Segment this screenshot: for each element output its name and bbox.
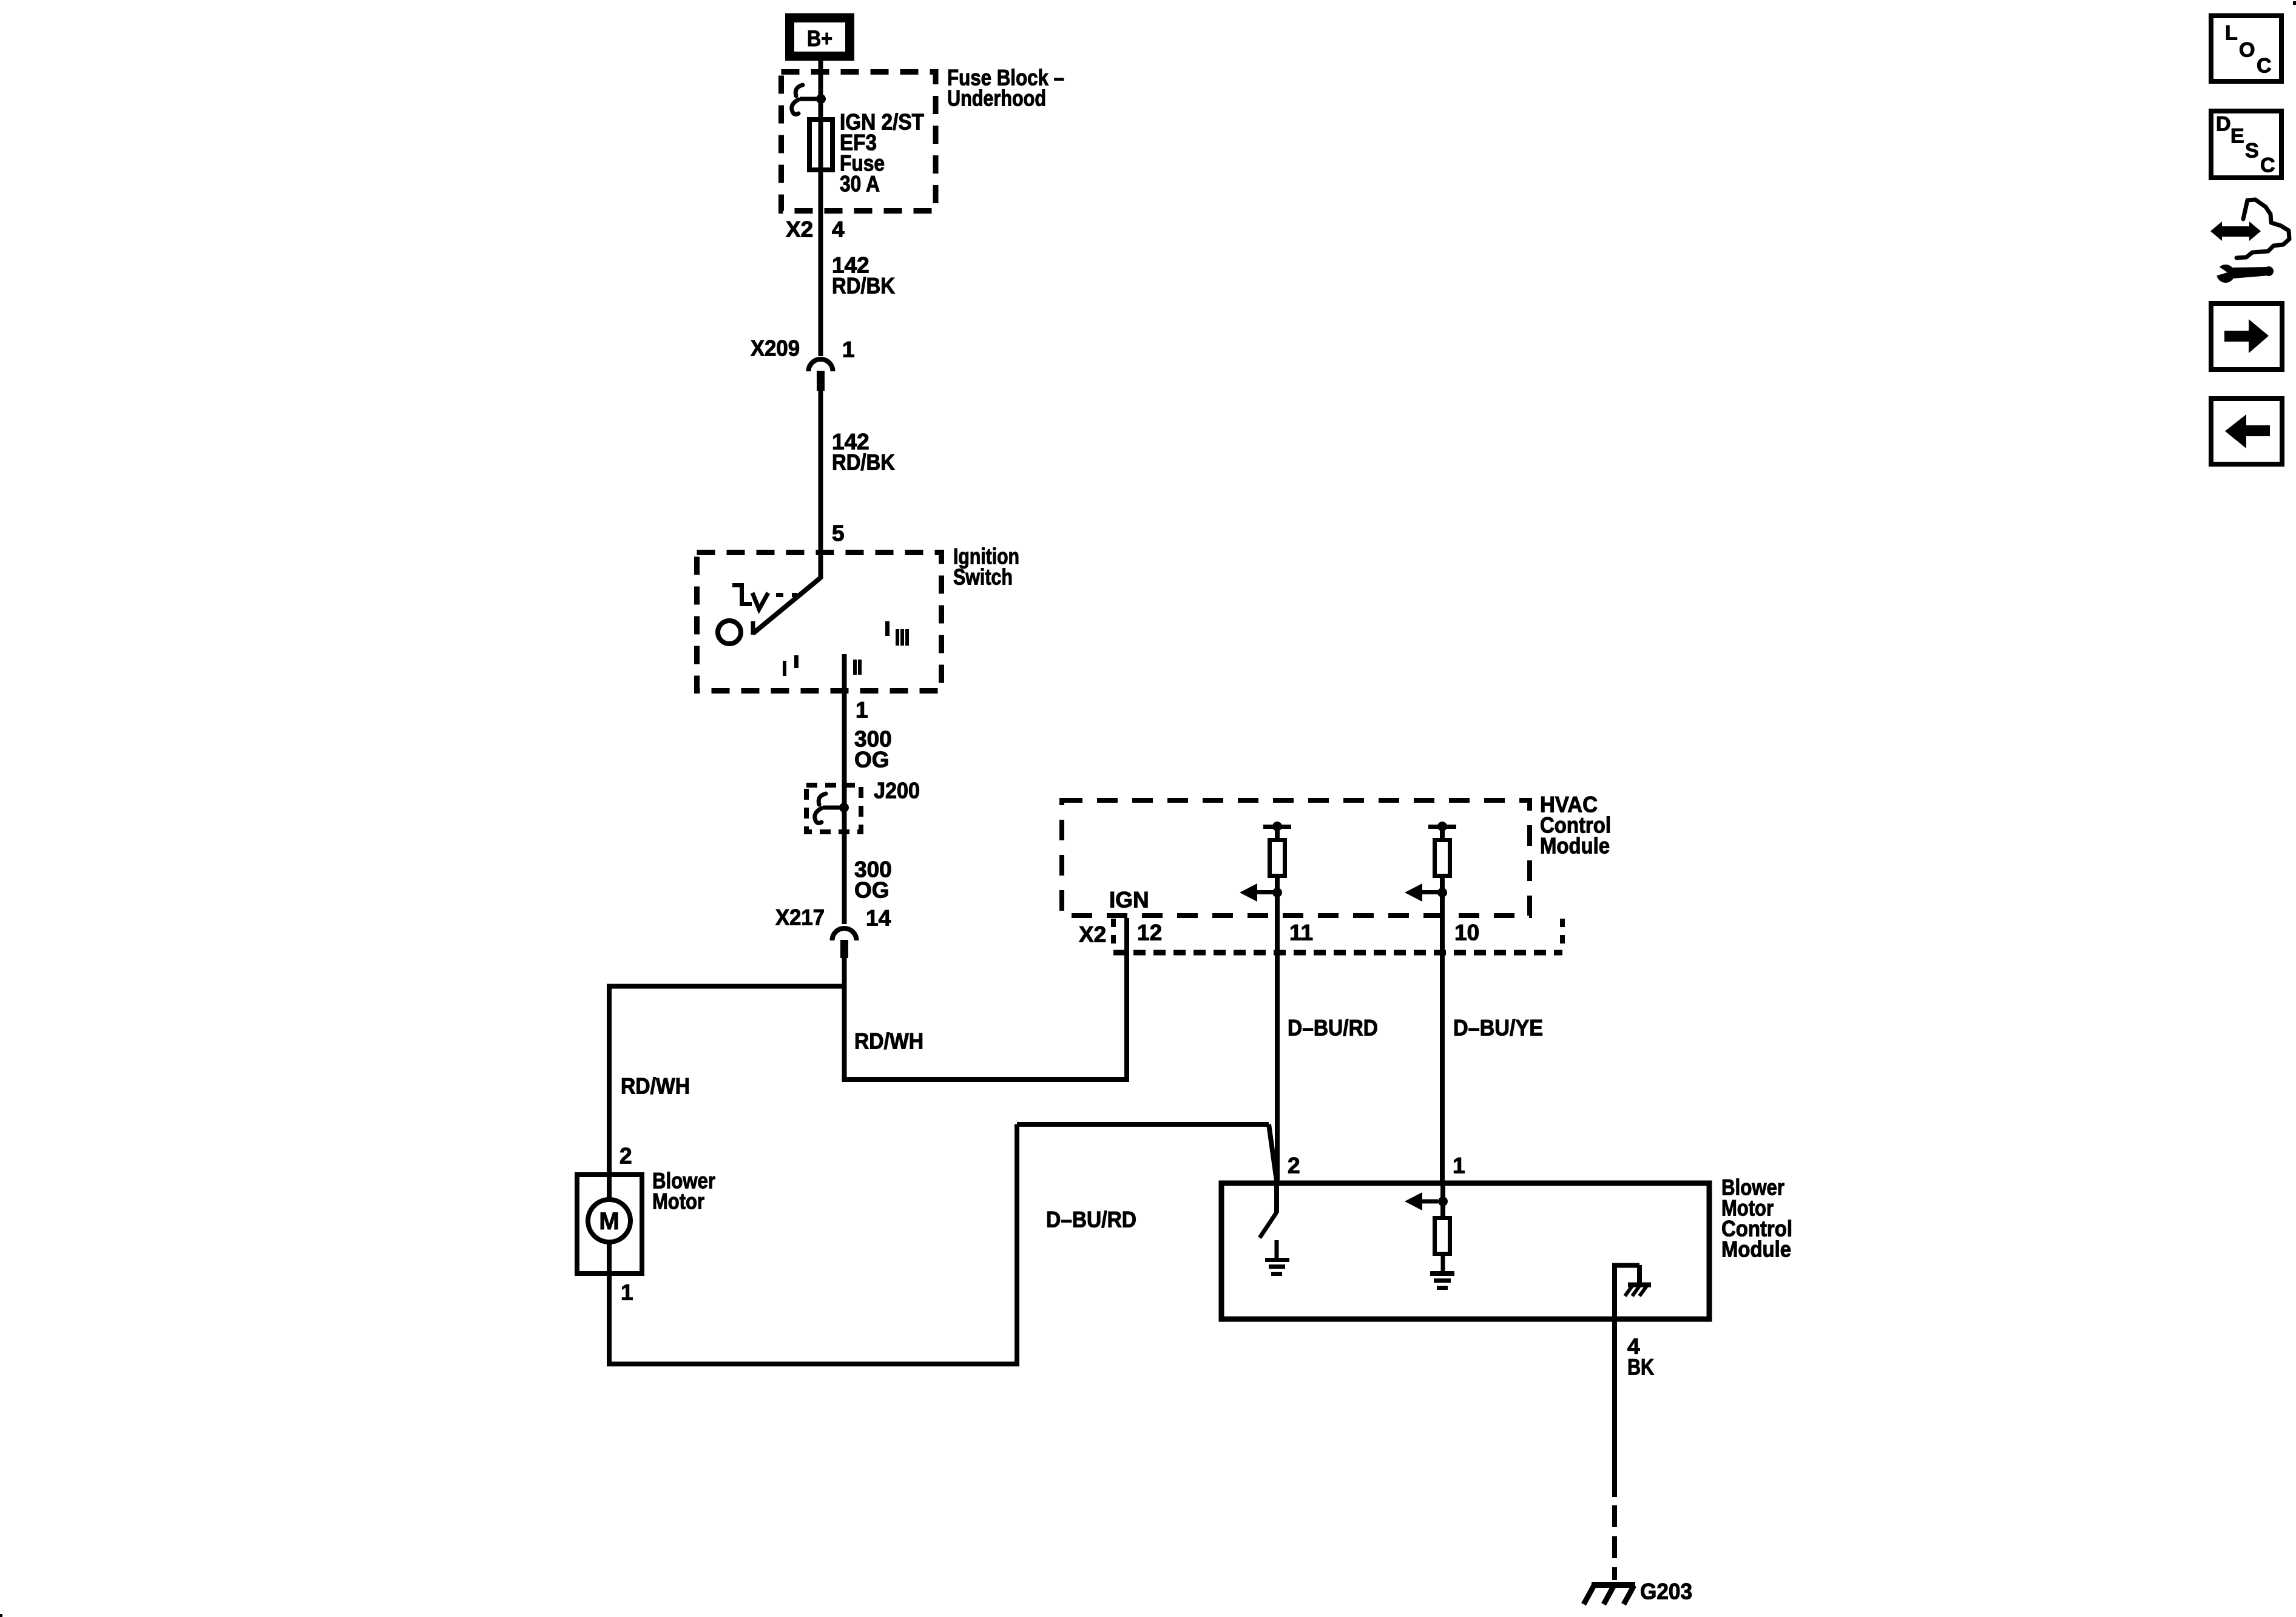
svg-text:12: 12 [1137, 920, 1162, 945]
svg-text:14: 14 [866, 906, 891, 931]
wire X217 down [842, 956, 847, 1082]
wire bottom run [607, 1362, 1019, 1366]
fuse IGN 2/ST EF3 30A [809, 120, 832, 170]
svg-text:BK: BK [1627, 1355, 1654, 1380]
sidebar DESC box [2211, 111, 2281, 178]
switch position III [885, 621, 890, 636]
svg-text:D–BU/YE: D–BU/YE [1453, 1016, 1543, 1041]
svg-text:OG: OG [854, 748, 890, 772]
arrow resistor 1 [1257, 890, 1273, 894]
key glyph [732, 583, 744, 587]
sidebar next arrow box [2211, 303, 2282, 370]
ground symbol pin 2 [1265, 1258, 1289, 1262]
blade pivot tick [751, 621, 755, 635]
svg-text:D–BU/RD: D–BU/RD [1288, 1016, 1378, 1041]
svg-text:J200: J200 [874, 778, 920, 803]
fuse block underhood dashed box [782, 72, 936, 211]
motor circle M [588, 1200, 630, 1242]
wire below motor [607, 1242, 612, 1366]
wire HVAC pin 12 drop [1124, 918, 1129, 1082]
svg-text:D–BU/RD: D–BU/RD [1046, 1207, 1136, 1232]
BMCM pin 4 internal chassis ground [1612, 1265, 1617, 1497]
page corner mark bottom left [0, 1614, 2, 1617]
svg-text:10: 10 [1454, 920, 1479, 945]
HVAC control module dashed box [1062, 800, 1530, 916]
svg-text:30 A: 30 A [840, 172, 880, 197]
svg-text:S: S [2245, 140, 2259, 163]
wire down to blower pin 2 [607, 987, 612, 1200]
svg-text:RD/BK: RD/BK [832, 450, 895, 475]
splice J200 dashed box [806, 785, 861, 832]
svg-text:Motor: Motor [652, 1189, 704, 1214]
svg-text:2: 2 [620, 1144, 632, 1169]
sidebar repair icon wrench [2217, 265, 2274, 283]
sidebar back arrow box [2211, 399, 2282, 464]
dot resistor 1 out [1272, 888, 1282, 897]
blower motor box [577, 1175, 642, 1274]
svg-text:X2: X2 [1079, 922, 1106, 947]
wire ignition II output [842, 654, 847, 924]
svg-text:2: 2 [1288, 1153, 1300, 1178]
wire HVAC pin 11 [1275, 878, 1280, 1183]
wire to BMCM pin 2 [1017, 1122, 1269, 1127]
HVAC resistor 1 [1263, 825, 1291, 829]
svg-text:Module: Module [1721, 1237, 1791, 1262]
sidebar repair icon harness outline [2237, 200, 2289, 258]
svg-text:RD/WH: RD/WH [854, 1029, 923, 1054]
key cylinder circle [718, 621, 741, 644]
svg-text:RD/BK: RD/BK [832, 274, 895, 299]
junction dot J200 [839, 803, 849, 812]
svg-text:X217: X217 [775, 905, 825, 930]
svg-text:C: C [2257, 55, 2272, 78]
svg-text:B+: B+ [807, 26, 832, 51]
connector hook at fuse feed [795, 85, 803, 96]
BMCM switch to ground at pin 2 [1274, 1183, 1279, 1213]
blower motor control module box [1221, 1183, 1709, 1319]
svg-text:5: 5 [832, 521, 845, 546]
page corner mark top right [2293, 1, 2296, 5]
svg-text:G203: G203 [1640, 1579, 1692, 1604]
svg-text:X2: X2 [786, 217, 813, 242]
switch position II [853, 660, 857, 675]
svg-text:X209: X209 [751, 336, 800, 361]
ground G203 symbol [1592, 1582, 1635, 1588]
ignition switch blade [753, 578, 821, 633]
svg-text:4: 4 [832, 217, 845, 242]
svg-text:M: M [599, 1208, 619, 1235]
arrow resistor 2 [1422, 890, 1438, 894]
svg-text:1: 1 [621, 1280, 633, 1305]
wire X209 to ignition switch [819, 387, 823, 579]
svg-text:IGN: IGN [1109, 888, 1149, 913]
svg-text:Underhood: Underhood [947, 86, 1046, 111]
svg-text:1: 1 [1453, 1153, 1465, 1178]
svg-text:L: L [2225, 22, 2238, 45]
svg-text:Switch: Switch [953, 565, 1013, 590]
ground symbol pin 1 [1430, 1271, 1454, 1276]
svg-text:OG: OG [854, 878, 890, 903]
battery B+ terminal box [790, 18, 850, 56]
HVAC resistor 2 [1428, 825, 1456, 829]
svg-text:D: D [2216, 113, 2231, 136]
BMCM sense resistor at pin 1 [1440, 1183, 1445, 1216]
dot resistor 2 out [1437, 888, 1447, 897]
svg-text:1: 1 [856, 698, 868, 723]
wire HVAC pin 10 [1440, 878, 1445, 1183]
svg-text:11: 11 [1289, 920, 1313, 945]
sidebar repair icon double arrow [2210, 221, 2261, 241]
switch position I [783, 661, 786, 676]
svg-text:O: O [2239, 39, 2255, 62]
junction dot [816, 94, 826, 104]
svg-text:RD/WH: RD/WH [621, 1074, 690, 1099]
wire B+ to fuse [819, 61, 823, 356]
wire diagonal into pin 2 [1269, 1124, 1277, 1181]
sidebar LOC box [2211, 16, 2281, 81]
wire RD/WH to HVAC pin 12 [845, 1077, 1130, 1082]
hook at J200 [819, 794, 826, 805]
svg-text:C: C [2260, 154, 2275, 177]
svg-text:1: 1 [842, 337, 855, 362]
svg-text:Module: Module [1540, 834, 1610, 859]
svg-text:E: E [2230, 125, 2244, 148]
ignition switch dashed box [697, 553, 942, 691]
wire up right side [1015, 1124, 1019, 1366]
dashed wire to G203 [1612, 1505, 1617, 1580]
wire tee to blower motor [607, 984, 845, 989]
